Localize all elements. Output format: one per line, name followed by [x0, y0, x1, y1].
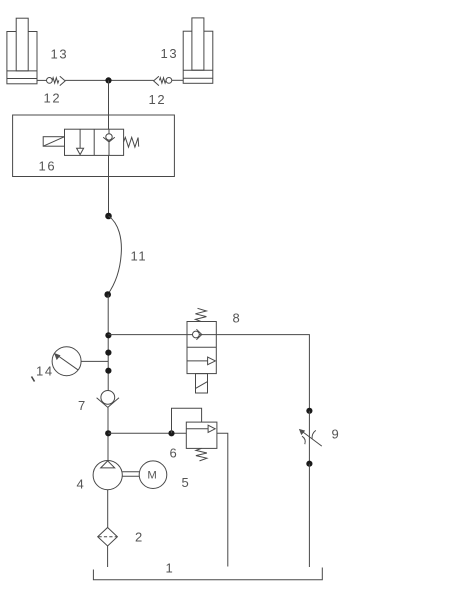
node branch-8 — [105, 332, 111, 338]
wire branch to valve 8 — [108, 334, 187, 336]
wire valve 8 to right corner — [216, 335, 309, 411]
cylinder 13 (left) — [7, 18, 37, 84]
svg-text:13: 13 — [51, 47, 69, 62]
node pilot tap — [168, 430, 174, 436]
solenoid coil of valve 8 — [196, 374, 208, 393]
wire gauge to main line — [81, 360, 108, 362]
solenoid valve U16 body — [65, 129, 124, 155]
svg-text:12: 12 — [44, 91, 62, 106]
motor 5 — [139, 461, 167, 489]
check-throttle valve 12 (right): triangle, spring, circle — [154, 76, 172, 85]
stray tick mark — [32, 377, 35, 382]
check valve 7 — [97, 391, 119, 408]
shaft pump-motor — [122, 471, 139, 473]
wire throttle to tank — [308, 464, 310, 567]
svg-text:14: 14 — [36, 364, 54, 379]
svg-text:6: 6 — [170, 446, 179, 461]
check-throttle valve 12 (left): circle, spring, triangle — [47, 76, 66, 85]
svg-text:7: 7 — [78, 398, 87, 413]
throttle valve 9 — [299, 429, 322, 446]
node hose bottom — [104, 291, 111, 298]
relief valve 6 — [186, 422, 217, 448]
svg-text:4: 4 — [77, 477, 86, 492]
enclosure box of valve 16 — [13, 115, 175, 177]
filter 2 — [98, 528, 118, 547]
valve 8 check position (ball on seat) — [187, 329, 216, 340]
spring of valve 6 (below) — [196, 448, 207, 461]
wire relief outlet to tank — [217, 433, 228, 566]
node junction top — [105, 77, 111, 83]
svg-text:13: 13 — [161, 46, 179, 61]
wire branch to relief valve 6 — [108, 432, 186, 434]
node throttle bottom — [306, 461, 312, 467]
svg-text:16: 16 — [39, 159, 57, 174]
spring of valve 16 — [124, 137, 139, 147]
flexible hose 11 — [108, 216, 122, 295]
node hose top — [105, 213, 112, 220]
pressure gauge 14 — [52, 347, 81, 376]
solenoid coil of 16 — [43, 137, 64, 147]
wire filter to tank — [107, 546, 109, 567]
valve 16 right-position check (ball on seat) — [103, 129, 115, 155]
wire valve 12 right to cylinder-right — [172, 79, 183, 81]
svg-text:11: 11 — [131, 249, 148, 264]
wire cylinder-left to valve 12 left — [37, 79, 47, 81]
wire throttle between dots — [308, 411, 310, 464]
cylinder 13 (right) — [183, 18, 213, 83]
valve 16 left-position arrow (down) — [77, 129, 84, 154]
pump 4 — [93, 461, 122, 490]
svg-text:12: 12 — [149, 92, 167, 107]
wire top manifold — [65, 79, 153, 81]
svg-text:8: 8 — [233, 311, 242, 326]
node branch relief — [105, 430, 111, 436]
svg-text:5: 5 — [182, 475, 191, 490]
valve 8 body — [187, 322, 216, 374]
node coupling mid — [105, 350, 111, 356]
svg-text:M: M — [147, 470, 156, 482]
wire main vertical (hose bottom to check valve 7) — [107, 295, 109, 391]
valve 8 flow position arrow — [187, 357, 215, 365]
svg-text:1: 1 — [166, 561, 175, 576]
spring of valve 8 (top) — [195, 308, 206, 321]
wire main vertical (check 7 to pump) — [107, 407, 109, 461]
svg-text:2: 2 — [135, 530, 144, 545]
wire pilot line of valve 6 — [172, 408, 202, 433]
tank 1 — [93, 568, 322, 580]
node coupling low — [105, 368, 111, 374]
wire pump to filter — [107, 490, 109, 528]
svg-text:9: 9 — [332, 427, 341, 442]
node throttle top — [306, 408, 312, 414]
wire main vertical (junction to hose top) — [108, 80, 110, 216]
